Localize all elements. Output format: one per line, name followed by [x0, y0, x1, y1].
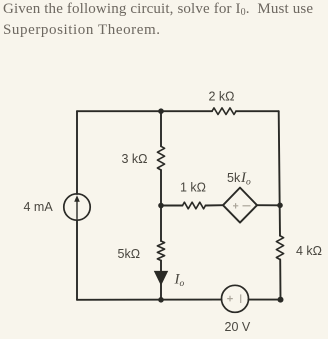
current source arrow shaft	[76, 199, 78, 219]
svg-text:20 V: 20 V	[225, 320, 251, 334]
dependent source diamond	[223, 188, 257, 223]
wire middle branch between 3k and middle node	[160, 170, 162, 241]
svg-text:2 kΩ: 2 kΩ	[209, 90, 235, 104]
wire middle branch upper	[160, 111, 162, 146]
current source arrowhead	[74, 195, 80, 202]
20V minus bar	[240, 294, 242, 303]
current source 4mA circle	[64, 194, 90, 220]
node dot bottom middle	[158, 297, 164, 303]
svg-text:Given the following circuit, s: Given the following circuit, solve for I…	[3, 1, 313, 18]
wire middle horizontal left segment	[161, 205, 183, 207]
node dot middle	[158, 203, 164, 209]
diamond minus	[243, 205, 251, 207]
wire top right segment	[236, 110, 279, 112]
wire middle horizontal between 1k and diamond	[206, 204, 224, 206]
svg-text:5kΩ: 5kΩ	[118, 247, 141, 261]
node dot top middle	[158, 108, 164, 114]
svg-text:3 kΩ: 3 kΩ	[122, 152, 148, 166]
wire bottom right segment	[249, 299, 281, 301]
svg-text:Superposition Theorem.: Superposition Theorem.	[3, 22, 160, 38]
wire left lower	[76, 220, 78, 300]
wire middle horizontal right segment	[257, 204, 280, 206]
node dot bottom right	[278, 297, 284, 303]
svg-text:4 mA: 4 mA	[24, 200, 54, 214]
20V plus	[227, 296, 233, 302]
wire bottom left segment	[77, 299, 222, 301]
node dot middle right	[277, 203, 283, 209]
svg-text:5k: 5k	[227, 171, 241, 185]
wire middle branch lower	[160, 261, 162, 300]
Io arrow	[154, 271, 168, 286]
wire left upper	[76, 111, 78, 194]
resistor 4k zigzag	[276, 236, 283, 260]
wire right upper	[279, 111, 280, 236]
wire right lower	[279, 260, 281, 300]
resistor 2k zigzag	[212, 108, 236, 115]
wire top left segment	[77, 110, 212, 112]
diamond plus	[233, 203, 238, 208]
svg-text:1 kΩ: 1 kΩ	[180, 181, 206, 195]
resistor 5k zigzag	[157, 241, 164, 261]
voltage source 20V circle	[222, 285, 249, 312]
resistor 3k zigzag	[157, 146, 164, 170]
resistor 1k zigzag	[183, 202, 206, 209]
polarity marks inside sources	[227, 203, 250, 303]
svg-text:4 kΩ: 4 kΩ	[296, 244, 322, 258]
